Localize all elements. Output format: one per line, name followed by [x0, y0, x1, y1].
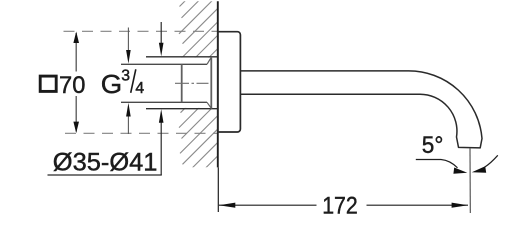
svg-text:3: 3 [121, 67, 130, 84]
svg-text:Ø35-Ø41: Ø35-Ø41 [53, 150, 158, 177]
svg-text:172: 172 [322, 192, 358, 219]
svg-text:70: 70 [59, 72, 85, 99]
svg-text:4: 4 [135, 80, 144, 97]
svg-text:G: G [101, 69, 122, 99]
svg-text:5°: 5° [422, 132, 444, 159]
